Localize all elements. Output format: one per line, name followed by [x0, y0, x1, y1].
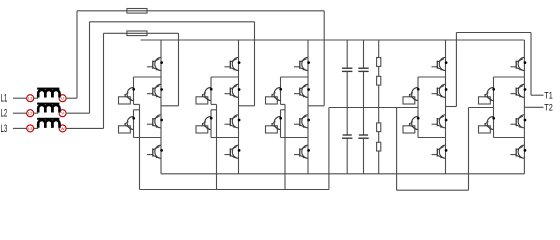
svg-text:L1: L1 — [1, 93, 8, 105]
svg-text:W: W — [61, 126, 65, 131]
svg-text:L2: L2 — [1, 108, 8, 120]
svg-text:T1: T1 — [544, 90, 553, 101]
svg-text:L3: L3 — [1, 123, 8, 135]
svg-text:T2: T2 — [544, 102, 553, 113]
svg-text:L3: L3 — [28, 126, 33, 131]
svg-text:L1: L1 — [28, 96, 33, 101]
svg-text:V: V — [61, 111, 64, 116]
svg-text:U: U — [61, 96, 64, 101]
svg-text:L2: L2 — [28, 111, 33, 116]
